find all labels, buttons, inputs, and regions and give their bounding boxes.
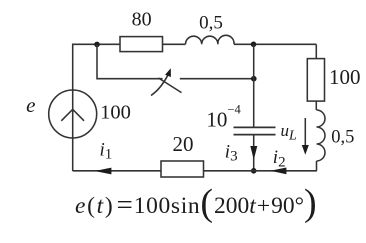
svg-text:i1: i1	[100, 140, 113, 163]
current arrow i1	[95, 168, 112, 175]
svg-text:uL: uL	[281, 121, 298, 144]
current arrow i2	[270, 168, 286, 175]
wire between resistor 80 and inductor	[163, 43, 186, 45]
wire middle branch vertical stub	[97, 44, 163, 78]
resistor 20	[161, 161, 204, 177]
inductor 0,5 right	[317, 110, 326, 161]
wire vertical from node B to capacitor	[253, 44, 255, 127]
wire inductor to bottom corner	[316, 161, 318, 171]
node C (middle junction dot)	[251, 76, 257, 82]
wire from inductor to node B and right corner	[234, 43, 316, 45]
capacitor 10^-4	[234, 127, 276, 134]
wire top from source to node A	[73, 44, 120, 171]
wire resistor 100 to inductor	[315, 101, 317, 110]
wire bottom	[73, 170, 317, 172]
resistor 80	[120, 37, 163, 52]
wire capacitor to bottom node	[253, 135, 255, 171]
source arrow chevron	[61, 109, 84, 121]
wire middle branch right of switch	[180, 78, 254, 80]
svg-text:e: e	[26, 93, 35, 117]
svg-text:80: 80	[132, 9, 152, 31]
switch blade	[159, 78, 182, 93]
svg-text:20: 20	[173, 132, 194, 156]
node D (bottom junction dot)	[251, 168, 257, 174]
inductor 0,5 top	[186, 35, 235, 44]
wire right branch top	[315, 44, 317, 58]
node B (top-right junction dot)	[251, 42, 257, 48]
voltage arrow uL	[304, 118, 306, 146]
svg-text:100: 100	[100, 102, 131, 124]
svg-text:100: 100	[329, 65, 361, 89]
switch motion arrow	[151, 71, 170, 96]
current arrow i3	[250, 146, 257, 160]
svg-text:0,5: 0,5	[331, 128, 354, 148]
node A (top-left junction dot)	[94, 42, 100, 48]
source e (circle)	[49, 90, 97, 138]
equation e(t)=100 sin(200t+90deg)	[75, 185, 317, 227]
svg-text:0,5: 0,5	[199, 13, 223, 34]
resistor 100	[307, 59, 324, 102]
svg-text:i2: i2	[273, 147, 286, 171]
svg-text:i3: i3	[225, 142, 238, 165]
